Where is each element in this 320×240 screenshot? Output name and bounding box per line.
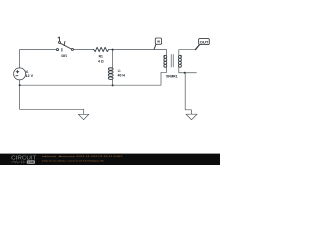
svg-text:OUT: OUT [200, 41, 210, 45]
svg-text:R1: R1 [99, 55, 104, 59]
svg-text:12 V: 12 V [26, 74, 35, 78]
svg-text:IN: IN [157, 39, 160, 43]
svg-text:XFMR1: XFMR1 [166, 74, 178, 78]
svg-text:LAB: LAB [28, 160, 34, 164]
svg-text:http://circuitlab.com/c/csk37e: http://circuitlab.com/c/csk37e5ddgac3k [42, 159, 105, 162]
svg-text:SW1: SW1 [61, 54, 67, 58]
svg-text:editorial : Autosave 2011-11-2: editorial : Autosave 2011-11-29T13:19:11… [42, 155, 124, 158]
svg-text:4 Ω: 4 Ω [98, 59, 104, 63]
svg-text:40 H: 40 H [118, 73, 126, 77]
